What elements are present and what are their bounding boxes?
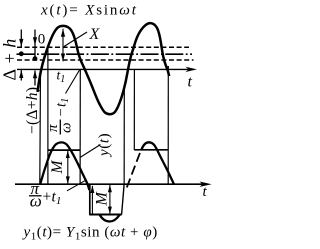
y1 trough arc (100, 215, 120, 222)
M1 arrow (67, 151, 69, 184)
svg-text:t1: t1 (52, 189, 62, 208)
negative pulse left edge (89, 184, 91, 214)
pulse 1 top edge (48, 149, 81, 151)
svg-text:0: 0 (38, 32, 46, 48)
dash-dot line B (17, 53, 193, 55)
sine x(t) (38, 23, 170, 114)
dot D2 on line C (33, 56, 38, 61)
svg-text:t: t (188, 74, 193, 91)
negative pulse right slant (122, 185, 125, 215)
y1 hump 2 solid (141, 142, 174, 184)
V3 (47, 48, 49, 184)
up arrow bottom (91, 186, 93, 214)
V2 (39, 70, 42, 184)
leader (67, 180, 86, 191)
rotated pi/w - t1 label (45, 98, 75, 135)
dashed level line A (17, 46, 189, 48)
y1 rising dashed (127, 151, 141, 187)
pulse 2 top edge (134, 149, 168, 151)
M2 arrow (109, 185, 111, 214)
svg-text:ω: ω (59, 122, 75, 133)
svg-text:M: M (94, 191, 111, 207)
svg-text:t: t (203, 184, 208, 200)
dashed level line C (17, 59, 194, 61)
negative pulse bottom (89, 214, 122, 216)
dimension line D1 (20, 30, 22, 81)
axis t (top) (17, 68, 190, 70)
svg-text:t1: t1 (54, 98, 72, 107)
svg-text:M: M (49, 160, 66, 175)
svg-text:X: X (89, 26, 101, 43)
svg-text:+: + (43, 189, 52, 206)
svg-text:Δ+h: Δ+h (0, 33, 19, 80)
dimension line D2 (34, 30, 36, 86)
V5 (123, 89, 125, 185)
svg-text:ω: ω (30, 192, 42, 211)
amplitude X arrow (62, 29, 64, 62)
svg-text:x(t)= Xsinωt: x(t)= Xsinωt (40, 3, 138, 19)
y1 hump 1 solid (40, 142, 89, 190)
leader from pi/w-t1 label to axis (66, 70, 80, 94)
dot D1 on line B (19, 51, 24, 56)
bottom axis (15, 183, 207, 185)
svg-text:−: − (54, 108, 70, 116)
svg-text:−(Δ+h): −(Δ+h) (24, 87, 41, 134)
V6 (133, 70, 135, 150)
V7 (167, 66, 169, 184)
V4 (79, 70, 81, 185)
svg-text:y1(t)= Y1sin (ωt + φ): y1(t)= Y1sin (ωt + φ) (22, 225, 158, 243)
